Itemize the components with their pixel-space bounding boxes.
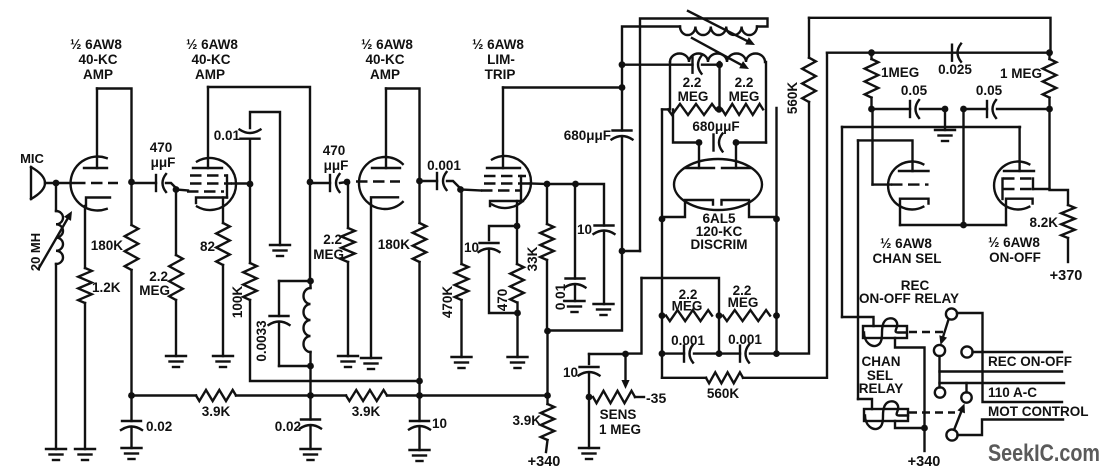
svg-text:-35: -35 xyxy=(646,390,666,406)
relay K2 lead-in xyxy=(858,399,872,409)
wire row left stub xyxy=(662,108,668,110)
node J (bus) xyxy=(307,392,314,399)
svg-text:DISCRIM: DISCRIM xyxy=(691,237,748,252)
V7 grid brackets xyxy=(1001,179,1003,200)
T1 secondary center tap xyxy=(718,62,720,109)
node AC (row2 left) xyxy=(659,312,666,319)
inductor L2 (tank coil) xyxy=(304,288,311,352)
node X (upper row center) xyxy=(716,106,723,113)
wire 622 up xyxy=(622,27,680,65)
wire 82 to ground xyxy=(222,265,224,356)
V2 plate xyxy=(193,167,222,169)
node AH (row3 right) xyxy=(773,350,780,357)
V4 cathode lead xyxy=(516,201,518,226)
V2 suppressor tie xyxy=(226,176,228,198)
node V (center tap / cap) xyxy=(716,61,723,68)
wire 110 A-C top xyxy=(940,382,1065,384)
svg-text:½ 6AW8: ½ 6AW8 xyxy=(186,37,238,52)
wire node M to V4 grid xyxy=(461,190,482,191)
svg-text:40-KC: 40-KC xyxy=(78,52,117,67)
node L (bus) xyxy=(416,392,423,399)
wire cathode rail xyxy=(489,226,517,240)
svg-text:ON-OFF RELAY: ON-OFF RELAY xyxy=(859,291,959,306)
ground (SENS) xyxy=(579,447,599,449)
node AG (row3 center) xyxy=(716,350,723,357)
svg-text:110 A-C: 110 A-C xyxy=(988,385,1037,400)
node AB (cathode2) xyxy=(773,216,780,223)
node F (V2 plate / C3 / tank) xyxy=(307,179,314,186)
relay K2 (CHAN SEL) box xyxy=(864,409,908,421)
svg-text:μμF: μμF xyxy=(324,158,349,173)
pot wiper arrow xyxy=(624,354,626,380)
svg-text:470: 470 xyxy=(495,289,510,312)
relay K1 coil loops xyxy=(864,318,907,346)
capacitor C2 0.01 xyxy=(241,137,260,139)
resistor R9 470 (cathode) xyxy=(516,226,518,264)
V1 grid (dashed) xyxy=(74,182,118,184)
svg-text:10: 10 xyxy=(563,365,578,380)
ground (0.01 bypass) xyxy=(565,300,585,302)
svg-text:MEG: MEG xyxy=(728,295,759,310)
node AL (1MEG right top) xyxy=(1046,49,1053,56)
svg-text:40-KC: 40-KC xyxy=(365,52,404,67)
wire node B to C1 xyxy=(132,182,157,184)
svg-text:½ 6AW8: ½ 6AW8 xyxy=(988,235,1040,250)
wire pot right / -35 xyxy=(635,396,644,398)
V4 plate xyxy=(487,167,520,169)
svg-text:MEG: MEG xyxy=(139,283,170,298)
pentode V4 envelope xyxy=(492,156,531,208)
ground (V3 cathode) xyxy=(361,357,381,359)
node Q (33K / B+ link) xyxy=(544,328,551,335)
svg-text:+370: +370 xyxy=(1050,268,1083,284)
node W (622/640 junction) xyxy=(619,248,626,255)
resistor R8 470K (V4 grid) xyxy=(460,190,462,265)
svg-text:1 MEG: 1 MEG xyxy=(599,422,641,437)
V4 plate rail to discriminator xyxy=(503,86,622,88)
node AP (1MEG right bottom) xyxy=(1046,106,1053,113)
ground (mic/20MH) xyxy=(46,448,66,450)
node AQ (cathode rail) xyxy=(960,222,967,229)
V4 screen wire to node P xyxy=(530,182,547,185)
V2 cathode xyxy=(196,198,227,204)
V1 plate xyxy=(84,167,107,169)
wire row2 left down xyxy=(661,316,663,354)
svg-text:REC ON-OFF: REC ON-OFF xyxy=(988,354,1072,369)
V2 plate top rail xyxy=(208,87,310,182)
svg-text:MOT CONTROL: MOT CONTROL xyxy=(988,404,1089,419)
wire 622 down to B+ link xyxy=(548,251,623,331)
svg-text:CHAN: CHAN xyxy=(862,354,901,369)
resistor R11 2.2 MEG (discrim upper left) xyxy=(668,104,716,115)
svg-text:ON-OFF: ON-OFF xyxy=(989,250,1041,265)
svg-text:MEG: MEG xyxy=(678,89,709,104)
svg-text:33K: 33K xyxy=(525,246,540,271)
wire bus segment 2 xyxy=(236,394,346,396)
tube V6 (CHAN SEL) envelope xyxy=(888,162,923,210)
svg-text:0.01: 0.01 xyxy=(553,283,568,310)
ground (82) xyxy=(213,355,233,357)
node AM (0.05 row left) xyxy=(868,106,875,113)
capacitor C20 0.05 (right) xyxy=(964,108,988,110)
wire 180K to B+ bus xyxy=(130,270,132,396)
S1 pivot B xyxy=(934,345,945,356)
node AR (+340 feed) xyxy=(921,425,928,432)
wire 100K down/right to 180K node xyxy=(250,300,420,381)
node P (screen / 33K) xyxy=(544,181,551,188)
svg-text:AMP: AMP xyxy=(83,67,113,82)
tank rail top xyxy=(279,280,310,282)
wire node D up to 0.01 xyxy=(249,139,251,184)
svg-text:560K: 560K xyxy=(707,386,740,401)
svg-text:0.01: 0.01 xyxy=(214,128,241,143)
switch S1 contact A xyxy=(946,308,957,319)
V1 cathode xyxy=(86,198,110,207)
wire 33K to node Q xyxy=(546,260,548,331)
node bus-left (180K/0.02) xyxy=(128,392,135,399)
capacitor C18 0.025 xyxy=(951,45,953,61)
svg-text:½ 6AW8: ½ 6AW8 xyxy=(361,37,413,52)
wire B-D link xyxy=(938,356,940,388)
wire coil ends xyxy=(309,281,311,288)
node G (V3 grid) xyxy=(344,179,351,186)
discrim output rail xyxy=(642,278,720,316)
resistor R14 2.2 MEG (lower right) xyxy=(723,310,770,321)
V3 grid (dashed) xyxy=(356,180,400,182)
wire screen row to 10 cap xyxy=(576,184,605,226)
node M (V4 grid) xyxy=(457,186,464,193)
capacitor C3 470uuF xyxy=(329,175,331,191)
relay K2 coil loops xyxy=(865,401,908,429)
svg-text:1 MEG: 1 MEG xyxy=(1000,66,1042,81)
triode V1 envelope xyxy=(71,157,107,211)
svg-text:+340: +340 xyxy=(908,454,941,470)
svg-text:100K: 100K xyxy=(230,286,245,319)
node C (V2 grid) xyxy=(173,186,180,193)
svg-text:82: 82 xyxy=(200,239,215,254)
box left edge down xyxy=(841,127,843,317)
wire bus segment 1 xyxy=(132,394,197,396)
wire row2 right down xyxy=(775,316,777,354)
svg-text:180K: 180K xyxy=(378,237,411,252)
wire V2 screen to node D xyxy=(232,182,250,184)
wire node Q to bus end xyxy=(546,331,548,396)
node AJ (pot left end) xyxy=(586,394,593,401)
V6 plate xyxy=(899,170,929,172)
svg-text:180K: 180K xyxy=(91,238,124,253)
V7 grid rows (dashed) xyxy=(1003,177,1033,179)
wire AF down to 560K row xyxy=(661,354,663,378)
T1 tuning arrow (secondary) xyxy=(692,38,741,65)
wire 680uuF box left xyxy=(673,109,697,142)
V7 cathode xyxy=(1006,199,1033,225)
wire row2-row3 center link xyxy=(718,316,720,354)
svg-text:470: 470 xyxy=(150,140,173,155)
pentode V2 envelope xyxy=(197,158,236,210)
relay K1 bottom lead xyxy=(895,338,925,428)
top rail xyxy=(809,18,1051,53)
wire mic to V1 grid xyxy=(45,182,73,184)
svg-text:MEG: MEG xyxy=(672,299,703,314)
cathode rail xyxy=(900,224,1006,226)
node AA (cathode1) xyxy=(659,216,666,223)
V6 cathode xyxy=(900,199,929,225)
node AE (row2 right) xyxy=(773,312,780,319)
T1 primary right lead xyxy=(640,19,768,252)
wire 640 to 622 link xyxy=(622,250,640,252)
svg-text:0.02: 0.02 xyxy=(275,419,301,434)
inductor L1 20 MH (variable) xyxy=(56,211,63,264)
node D (screen/0.01/100K) xyxy=(247,181,254,188)
resistor R19 560K (vertical) xyxy=(808,18,810,58)
svg-text:3.9K: 3.9K xyxy=(202,404,231,419)
resistor R6 2.2 MEG (V3 grid) xyxy=(347,182,349,228)
T1 tuning arrow (primary) xyxy=(688,11,747,41)
wire node D to 100K xyxy=(249,184,251,263)
ground (C8) xyxy=(594,303,614,305)
svg-text:3.9K: 3.9K xyxy=(352,404,381,419)
svg-text:+340: +340 xyxy=(528,454,561,470)
wire C8 to ground xyxy=(603,232,605,304)
tube V7 (ON-OFF) envelope xyxy=(994,162,1029,210)
capacitor C10 680uuF (in 622 line) xyxy=(621,88,623,131)
node AI (pot wiper feed) xyxy=(622,351,629,358)
wire T1 primary left lead xyxy=(621,65,623,88)
wire riser to cathode rail xyxy=(962,109,964,225)
capacitor C8 10 xyxy=(595,224,614,226)
node Z (diode2 plate) xyxy=(733,139,740,146)
svg-text:0.001: 0.001 xyxy=(728,332,762,347)
ground riser xyxy=(944,109,946,130)
svg-text:0.001: 0.001 xyxy=(427,158,461,173)
wire cathode right drop xyxy=(775,108,777,219)
svg-text:CHAN SEL: CHAN SEL xyxy=(872,251,941,266)
svg-text:0.025: 0.025 xyxy=(938,62,972,77)
node A (mic/grid junction) xyxy=(53,180,60,187)
relay K1 dashed link xyxy=(909,331,944,333)
wire cathode1 down xyxy=(661,219,663,316)
capacitor C15 0.02 (bus left) xyxy=(130,396,132,422)
wire node C to V2 grid xyxy=(176,190,188,191)
capacitor C16 0.02 (bus mid) xyxy=(309,396,311,420)
wire discrim output to pot xyxy=(626,278,642,354)
S2 pivot F xyxy=(946,429,957,440)
V4 suppressor tie xyxy=(520,176,522,199)
svg-text:680μμF: 680μμF xyxy=(564,128,611,143)
S1 armature xyxy=(943,320,948,337)
svg-text:AMP: AMP xyxy=(370,67,400,82)
node Y (diode1 plate) xyxy=(696,139,703,146)
V1 cathode wire to 1.2K xyxy=(84,206,86,268)
svg-text:0.05: 0.05 xyxy=(976,83,1003,98)
wire to +340 xyxy=(546,440,548,452)
T1 secondary right terminal xyxy=(765,62,767,143)
node O (cathode network bottom) xyxy=(514,310,521,317)
E stub xyxy=(965,383,967,393)
resistor R18 3.9K (B+ feed) xyxy=(546,396,548,405)
V7 plate xyxy=(1004,170,1034,172)
node AD (row2 center) xyxy=(716,312,723,319)
transformer T1 primary winding xyxy=(680,27,757,36)
relay K1 (REC ON-OFF) box xyxy=(863,326,907,338)
svg-text:1.2K: 1.2K xyxy=(92,280,121,295)
resistor R4 82 xyxy=(216,223,230,265)
node AK (1MEG left top) xyxy=(868,49,875,56)
ground (470/10 cathode) xyxy=(508,356,528,358)
wire 560K row left xyxy=(662,377,706,379)
V5 diode2 plate xyxy=(735,143,737,169)
svg-text:0.02: 0.02 xyxy=(146,419,172,434)
node I (tank bottom) xyxy=(307,363,314,370)
svg-text:10: 10 xyxy=(464,240,479,255)
svg-text:LIM-: LIM- xyxy=(487,52,515,67)
resistor R16 3.9K (bus 1) xyxy=(196,390,236,401)
svg-text:RELAY: RELAY xyxy=(859,381,904,396)
outer box top (plate rail) xyxy=(842,126,1020,128)
svg-text:470K: 470K xyxy=(440,286,455,319)
capacitor C17 10 (bus right) xyxy=(418,396,420,422)
wire C5 to node M xyxy=(447,181,460,188)
S1 contact C xyxy=(961,346,972,357)
svg-text:680μμF: 680μμF xyxy=(692,119,739,134)
wire 560K row right xyxy=(743,53,827,378)
svg-text:2.2: 2.2 xyxy=(683,75,702,90)
relay K2 dashed link xyxy=(909,411,955,413)
wire 20MH to ground xyxy=(55,264,57,449)
contact E xyxy=(961,392,971,402)
wire to ground xyxy=(516,303,518,358)
arrow of variable inductor L1 xyxy=(39,219,67,268)
resistor R10 33K xyxy=(546,184,548,224)
inner plate rail xyxy=(858,140,913,171)
ground (C17) xyxy=(410,449,430,451)
svg-text:½ 6AW8: ½ 6AW8 xyxy=(880,236,932,251)
resistor R22 8.2K xyxy=(1061,205,1075,238)
resistor R3 2.2 MEG (V2 grid) xyxy=(175,190,177,256)
wire bus segment 3 xyxy=(387,394,548,396)
svg-text:40-KC: 40-KC xyxy=(191,52,230,67)
svg-text:10: 10 xyxy=(577,222,592,237)
wire node to 20MH coil xyxy=(55,186,57,211)
V5 diode1 cathode xyxy=(662,200,713,217)
V3 plate top rail xyxy=(386,89,420,182)
node H (tank top) xyxy=(307,278,314,285)
ground (470K) xyxy=(452,356,472,358)
wire 0.01 to ground leg xyxy=(250,112,280,245)
node U (coupling cap rail) xyxy=(619,61,626,68)
resistor R2 180K xyxy=(130,182,132,225)
resistor R15 560K (horizontal) xyxy=(706,372,743,383)
capacitor C1 470uuF xyxy=(155,175,157,191)
node E (100K/180K junction) xyxy=(416,378,423,385)
ground (0.01 screen bypass) xyxy=(270,244,290,246)
V5 diode2 cathode xyxy=(722,200,777,217)
svg-text:μμF: μμF xyxy=(151,155,176,170)
tank rail bottom xyxy=(279,365,310,367)
node K (V3 plate / C5 / 180K) xyxy=(416,178,423,185)
V1 plate top rail xyxy=(97,89,132,183)
relay K1 lead-in xyxy=(842,317,874,326)
svg-text:2.2: 2.2 xyxy=(735,75,754,90)
svg-text:MIC: MIC xyxy=(20,151,44,166)
svg-text:2.2: 2.2 xyxy=(149,269,168,284)
V2 cathode wire xyxy=(222,198,224,224)
ground (2.2MEG V2 grid) xyxy=(166,355,186,357)
wire AH to 560K riser xyxy=(777,102,810,354)
second rail xyxy=(827,52,1050,54)
capacitor C11 680uuF (discrim) xyxy=(712,135,714,151)
capacitor C13 0.001 (right) xyxy=(719,352,740,354)
wire AI left to 10 cap xyxy=(589,353,626,355)
resistor R12 2.2 MEG (discrim upper right) xyxy=(722,104,763,115)
resistor R17 3.9K (bus 2) xyxy=(346,390,387,401)
ground (0.02 mid) xyxy=(301,448,321,450)
wire 1MEG-R bottom to 8.2K xyxy=(1050,109,1069,205)
ground (0.02 left) xyxy=(122,447,142,449)
contact D xyxy=(935,387,945,397)
potentiometer SENS 1 MEG xyxy=(593,391,635,403)
tube V5 6AL5 envelope xyxy=(674,159,762,210)
T1 secondary left terminal xyxy=(669,62,671,109)
node S (0.01 bypass) xyxy=(572,181,579,188)
svg-text:AMP: AMP xyxy=(195,67,225,82)
S2 wire F (MOT CONTROL bottom) xyxy=(958,420,1064,436)
svg-text:0.05: 0.05 xyxy=(901,83,928,98)
S1 wire C (REC ON-OFF top) xyxy=(973,351,1063,353)
svg-text:8.2K: 8.2K xyxy=(1029,215,1058,230)
resistor R21 1 MEG (right) xyxy=(1048,53,1050,59)
svg-text:MEG: MEG xyxy=(729,89,760,104)
capacitor C4 0.0033 xyxy=(278,281,280,316)
svg-text:2.2: 2.2 xyxy=(323,232,342,247)
svg-text:SeekIC.com: SeekIC.com xyxy=(988,440,1100,467)
resistor R13 2.2 MEG (lower left) xyxy=(666,310,712,321)
ground (1.2K) xyxy=(75,448,95,450)
wire +340 right xyxy=(923,428,925,451)
V4 cathode xyxy=(490,201,523,206)
microphone symbol xyxy=(30,167,32,199)
wire cathode left drop xyxy=(661,109,663,219)
node AN (row ground tap) xyxy=(942,106,949,113)
ground (0.05 row) xyxy=(935,129,955,131)
capacitor C6 10 (cathode) xyxy=(480,242,499,244)
relay K2 bottom lead xyxy=(895,421,925,428)
svg-text:½ 6AW8: ½ 6AW8 xyxy=(70,37,122,52)
V3 plate xyxy=(372,167,400,169)
wire REC ON-OFF bottom xyxy=(940,370,1063,372)
wire 680uuF box right xyxy=(738,141,766,143)
wire 470K to ground xyxy=(460,300,462,357)
wire tank top xyxy=(309,182,311,281)
svg-text:10: 10 xyxy=(432,416,447,431)
resistor R20 1MEG (left) xyxy=(870,53,872,59)
S1 wire A over the top xyxy=(957,313,1062,402)
switch S2 armature xyxy=(954,412,961,430)
wire 180K to bus xyxy=(418,262,420,396)
wire node F to C3 xyxy=(310,182,330,184)
wire tank to bus xyxy=(309,366,311,396)
wire screen row right xyxy=(547,183,576,185)
V5 diode1 plate xyxy=(698,143,700,169)
svg-text:TRIP: TRIP xyxy=(485,67,516,82)
svg-text:SENS: SENS xyxy=(600,407,637,422)
svg-text:3.9K: 3.9K xyxy=(512,413,541,428)
node T (plate rail / 622 line) xyxy=(619,84,626,91)
node R (bus right end) xyxy=(544,392,551,399)
V3 cathode xyxy=(371,197,398,358)
resistor R7 180K xyxy=(418,181,420,223)
node AO (cathode riser top) xyxy=(960,106,967,113)
